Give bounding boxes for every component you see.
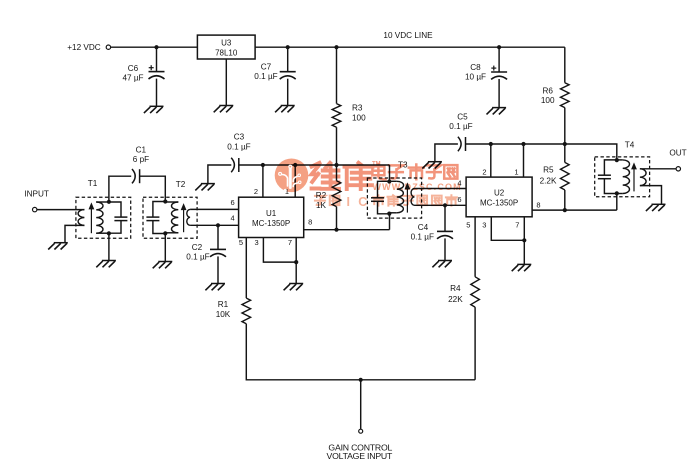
svg-text:100: 100 [352,114,366,123]
wire U1 pin 2 [262,165,264,197]
wire +12V rail left segment [111,46,198,48]
svg-text:2: 2 [482,167,486,176]
svg-text:10 µF: 10 µF [465,73,486,82]
regulator U3 78L10 [197,35,255,59]
node pin2 U2 junction [489,142,493,146]
ground left of C5 [428,161,442,163]
svg-text:2.2K: 2.2K [540,177,557,186]
resistor R3 100 [336,47,338,103]
node T3 top [387,179,391,183]
node gain control terminal [359,429,363,433]
svg-text:U3: U3 [221,39,232,48]
svg-text:I: I [346,195,349,209]
ground under input primary [54,242,68,244]
resistor R2 1K [332,181,341,207]
svg-text:2: 2 [254,187,258,196]
svg-text:0.1 µF: 0.1 µF [186,253,209,262]
svg-text:0.1 µF: 0.1 µF [411,233,434,242]
svg-text:R5: R5 [543,166,554,175]
watermark logo and text [275,159,462,209]
svg-text:5: 5 [239,238,243,247]
node C8 tap junction [497,45,501,49]
op-amp U2 MC-1350P [466,177,532,217]
svg-text:T2: T2 [176,180,186,189]
wire input to T1 primary [37,209,85,211]
capacitor C7 0.1uF [287,47,289,71]
svg-text:5: 5 [466,220,470,229]
node C3 junction pin2 [261,163,265,167]
svg-text:VOLTAGE INPUT: VOLTAGE INPUT [326,451,393,461]
ground under U1 pin 7 [289,283,303,285]
svg-text:78L10: 78L10 [215,49,238,58]
ground under T1 [102,260,116,262]
node OUT terminal [676,167,680,171]
capacitor C1 6pF [109,176,131,202]
svg-text:8: 8 [536,200,540,209]
resistor R5 2.2K [564,144,566,162]
wire U2 pin 3 [491,217,524,241]
resistor R6 100 [564,47,566,82]
svg-text:T1: T1 [88,179,98,188]
wire U2 pin 1 [523,144,525,177]
wire T4 secondary to OUT [640,168,676,170]
ground under C6 [150,105,164,107]
node C7 tap junction [286,45,290,49]
capacitor C8 10uF [498,47,500,72]
wire T2 bottom to ground [164,233,166,261]
svg-text:R4: R4 [450,284,461,293]
capacitor C3 0.1uF [208,165,231,184]
resistor R4 22K [474,217,476,277]
node C4 tap [443,203,447,207]
svg-text:+12 VDC: +12 VDC [67,43,101,52]
svg-text:R3: R3 [352,104,363,113]
wire gain control drop [360,380,362,430]
node T2 bottom [163,231,167,235]
wire U2 pin 2 [490,144,492,177]
node T4 bottom [615,191,619,195]
svg-text:47 µF: 47 µF [122,74,143,83]
svg-text:7: 7 [515,220,519,229]
svg-text:3: 3 [482,220,486,229]
ground under U2 pin 7 [517,263,531,265]
node T1 bottom [107,231,111,235]
svg-text:4: 4 [231,213,235,222]
svg-text:T4: T4 [625,141,635,150]
wire U1 pin 8 to R2 bottom and T3 bottom [304,229,390,231]
wire U3 ground pin [225,59,227,106]
svg-text:6 pF: 6 pF [133,155,149,164]
ground under C4 [438,260,452,262]
node gain control junction [359,378,363,382]
svg-text:R6: R6 [542,87,553,96]
svg-text:C6: C6 [128,64,139,73]
wire down to T3 top [389,165,391,181]
svg-text:WWW.DZSC.COM: WWW.DZSC.COM [373,182,462,192]
svg-text:OUT: OUT [669,149,686,158]
node pin3-pin7 junction U2 [522,238,526,242]
svg-text:MC-1350P: MC-1350P [252,219,290,228]
wire 10VDC rail right segment [255,46,565,48]
node R3 tap junction [334,45,338,49]
wire T3 to U2 pin 4 [415,188,467,190]
svg-text:MC-1350P: MC-1350P [480,198,518,207]
node pin3-pin7 junction [294,260,298,264]
svg-text:R1: R1 [218,300,229,309]
capacitor C5 0.1uF [435,144,458,162]
svg-text:0.1 µF: 0.1 µF [227,142,250,151]
ground under T4 secondary [652,203,666,205]
svg-text:C8: C8 [470,63,481,72]
wire U1 pin 1 [294,165,296,197]
resistor R1 10K [245,238,247,299]
node T1 top [107,200,111,204]
svg-text:C3: C3 [234,132,245,141]
svg-text:22K: 22K [448,295,463,304]
wire U2 pin 7 to ground [523,217,525,265]
node T3 bottom [387,212,391,216]
svg-text:0.1 µF: 0.1 µF [449,122,472,131]
svg-text:6: 6 [231,198,235,207]
wire U1 pin 3 [263,238,296,263]
wire 10V to T4 top [565,144,617,160]
ground under C8 [492,107,506,109]
node R6-R5-T4 junction [563,142,567,146]
svg-text:8: 8 [308,218,312,227]
svg-text:U1: U1 [266,209,277,218]
ground under U3 [219,105,233,107]
wire R1 to gain control bus [246,324,475,380]
wire U1 pin 7 to ground [295,238,297,284]
wire T4 secondary bottom to ground [640,186,662,205]
node pin1 junction [293,163,297,167]
ground under C7 [281,105,295,107]
capacitor C4 0.1uF [444,205,446,231]
wire T2 to U1 pin 4 [190,224,239,226]
svg-text:6: 6 [457,195,461,204]
op-amp U1 MC-1350P [239,197,304,237]
wire T3 to U2 pin 6 [415,204,467,206]
svg-text:C7: C7 [261,63,272,72]
svg-text:1: 1 [514,167,518,176]
capacitor C6 47uF [156,47,158,71]
svg-text:C4: C4 [418,223,429,232]
svg-text:C5: C5 [457,113,468,122]
wire T2 to U1 pin 6 [190,208,239,210]
svg-text:C2: C2 [192,243,203,252]
svg-text:C1: C1 [136,145,147,154]
node T2 top [163,199,167,203]
svg-text:7: 7 [288,238,292,247]
node C6 tap junction [154,45,158,49]
ground under T2 [158,261,172,263]
node R3-R2 junction [334,163,338,167]
node pin1 U2 junction [521,142,525,146]
svg-text:U2: U2 [494,188,505,197]
svg-text:0.1 µF: 0.1 µF [254,72,277,81]
ground left of C3 [201,183,215,185]
capacitor C2 0.1uF [217,225,219,249]
svg-text:3: 3 [255,238,259,247]
svg-text:10K: 10K [216,310,231,319]
svg-text:10 VDC LINE: 10 VDC LINE [383,31,433,40]
svg-text:INPUT: INPUT [24,190,49,199]
node C2 tap [216,223,220,227]
ground under C2 [211,283,225,285]
wire U2 pin 8 to T4 bottom [532,209,617,211]
svg-text:C: C [358,195,367,209]
svg-text:100: 100 [541,96,555,105]
node T4 top [615,158,619,162]
wire T1 bottom to ground [108,233,110,260]
